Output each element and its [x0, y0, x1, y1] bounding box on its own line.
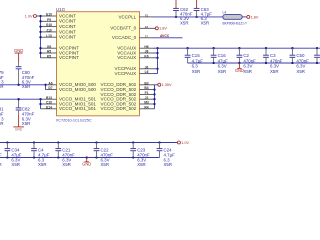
junction dots gnd rail	[212, 62, 318, 64]
svg-text:X5R: X5R	[137, 162, 146, 167]
junction dots aux rail	[186, 47, 318, 49]
capacitor C21 470nF	[57, 143, 59, 149]
capacitor C80 470nF	[18, 62, 20, 67]
svg-text:C50: C50	[296, 53, 305, 58]
svg-text:GND: GND	[14, 48, 24, 53]
wire VCCINT vertical bus	[40, 16, 42, 58]
wire B3 to 1.35V flag	[155, 84, 158, 86]
power flag 1.8V (VCCBATT)	[155, 27, 158, 30]
ground below bottom rail	[86, 156, 88, 158]
svg-text:1.0V: 1.0V	[25, 14, 33, 18]
svg-text:VCCINT: VCCINT	[59, 13, 76, 18]
capacitor C24 4.7µF	[159, 143, 161, 149]
svg-text:6.3V: 6.3V	[296, 64, 305, 69]
svg-text:D7: D7	[48, 86, 52, 90]
svg-text:G10: G10	[46, 23, 52, 27]
svg-text:VCCINT: VCCINT	[59, 19, 76, 24]
wire AVCC net	[153, 37, 183, 39]
svg-text:J8: J8	[145, 50, 149, 54]
svg-text:R4: R4	[144, 105, 148, 109]
wire DDR pins to tie	[153, 85, 155, 109]
wire E8 to flag	[153, 27, 155, 29]
svg-text:VCCBATT_0: VCCBATT_0	[110, 26, 136, 31]
capacitor C23 470nF	[132, 143, 134, 149]
wire MIO1 rail to left edge	[0, 98, 41, 100]
svg-text:5R: 5R	[0, 121, 4, 126]
junction dots VCCPLL rail	[175, 16, 177, 18]
ground symbol below bottom rail	[86, 158, 88, 162]
junction dots bottom rails	[6, 141, 160, 158]
svg-text:X5R: X5R	[22, 121, 31, 126]
svg-text:C16: C16	[218, 53, 227, 58]
svg-text:BKP900HS121-T: BKP900HS121-T	[223, 21, 248, 25]
capacitor C50 470nF	[291, 48, 293, 55]
wire L4 to 1.8V flag	[242, 16, 247, 18]
svg-text:A6: A6	[48, 81, 52, 85]
svg-text:VCCO_DDR_502: VCCO_DDR_502	[101, 106, 137, 111]
svg-text:GND: GND	[82, 162, 91, 167]
capacitor C2 470nF	[238, 48, 240, 55]
capacitor C22 470nF	[96, 143, 98, 149]
svg-text:X5R: X5R	[296, 69, 305, 74]
svg-text:J10: J10	[46, 29, 52, 33]
svg-text:M3: M3	[144, 101, 149, 105]
svg-text:VCCPAUX: VCCPAUX	[115, 71, 137, 76]
junction dots MIO1	[39, 98, 41, 105]
capacitor C82 470nF	[18, 99, 20, 108]
IC U1 left pin names	[59, 13, 96, 111]
VCCPAUX pins stubs	[140, 65, 154, 74]
power flag 1.8V (VCCPLL)	[247, 15, 250, 18]
svg-text:C15: C15	[192, 53, 201, 58]
capacitor C62 470nF	[175, 0, 177, 8]
IC U1 XC7Z010-1CLG225C body	[57, 12, 140, 116]
capacitor C4 4.7µF	[33, 143, 35, 149]
VCCO_MIO0 pins A6 D7 stubs	[46, 81, 57, 90]
svg-text:1.0V: 1.0V	[181, 141, 189, 145]
svg-text:X5R: X5R	[270, 69, 279, 74]
pin F5 VCCPLL stub	[140, 16, 154, 18]
svg-text:VCCO_MIO0_500: VCCO_MIO0_500	[59, 87, 96, 92]
svg-text:J6: J6	[145, 65, 149, 69]
ground below C82	[18, 115, 20, 127]
svg-text:L6: L6	[145, 70, 149, 74]
capacitor clipped at right edge	[316, 48, 318, 55]
junction dot C80 on MIO0 rail	[17, 84, 19, 86]
svg-text:VCCINT: VCCINT	[59, 29, 76, 34]
inductor L4 BKP900HS121-T	[223, 15, 242, 20]
svg-text:VCCPINT: VCCPINT	[59, 55, 79, 60]
svg-text:6.3V: 6.3V	[270, 64, 279, 69]
svg-text:6.3V: 6.3V	[243, 64, 252, 69]
wire flag to bus	[37, 15, 41, 17]
svg-text:X5R: X5R	[192, 69, 201, 74]
wire gnd rail under aux caps	[188, 62, 320, 64]
svg-text:X5R: X5R	[243, 69, 252, 74]
svg-text:5R: 5R	[0, 84, 4, 89]
svg-text:X5R: X5R	[218, 69, 227, 74]
svg-text:1.35V: 1.35V	[162, 83, 172, 87]
wire MIO0 rail to left edge	[0, 84, 46, 86]
svg-text:XC7Z010-1CLG225C: XC7Z010-1CLG225C	[56, 118, 92, 122]
wire VCCAUX pins to tie	[153, 48, 158, 73]
svg-text:X5R: X5R	[101, 162, 110, 167]
svg-text:VCCO_MIO1_501: VCCO_MIO1_501	[59, 106, 96, 111]
wire MIO0 tie	[45, 85, 47, 90]
pin E8 VCCBATT_0 stub	[140, 27, 154, 29]
svg-text:AVCC: AVCC	[160, 34, 170, 38]
VCCO_MIO1 pins B13 C10 E14 stubs	[41, 96, 57, 110]
svg-text:X5R: X5R	[62, 162, 71, 167]
svg-text:GND: GND	[15, 128, 23, 132]
svg-text:X5R: X5R	[201, 21, 210, 26]
junction dot MIO0	[44, 84, 46, 86]
svg-text:1.8V: 1.8V	[159, 27, 167, 31]
power flag 1.0V (VCCINT)	[33, 15, 36, 18]
VCCO_DDR pins stubs	[140, 81, 154, 109]
svg-text:X5R: X5R	[180, 21, 189, 26]
svg-text:E14: E14	[46, 105, 52, 109]
svg-text:VCCINT: VCCINT	[59, 24, 76, 29]
VCCINT/VCCPINT left pin stubs with pin numbers	[41, 13, 57, 59]
svg-text:E8: E8	[145, 25, 149, 29]
svg-text:F5: F5	[145, 14, 149, 18]
IC U1 right pin names	[101, 14, 137, 111]
pin F7 VCCADC_0 stub	[140, 37, 154, 39]
wire VCCPLL to L4	[153, 16, 223, 18]
svg-text:C10: C10	[46, 101, 52, 105]
svg-text:C3: C3	[270, 53, 276, 58]
junction dot C82 on MIO1 rail	[17, 98, 19, 100]
svg-text:X5R: X5R	[22, 84, 31, 89]
power flag 1.0V (bottom rail)	[177, 141, 180, 144]
svg-text:B4: B4	[144, 86, 148, 90]
power flag 1.35V (VCCO_DDR)	[158, 83, 161, 86]
capacitor C34 47µF	[6, 143, 8, 149]
junction dots on VCCINT bus	[39, 15, 41, 54]
capacitor C63 4.7uF	[196, 0, 198, 8]
VCCAUX pins stubs	[140, 45, 154, 59]
svg-text:6.3V: 6.3V	[218, 64, 227, 69]
svg-text:L4: L4	[223, 11, 227, 15]
svg-text:X5R: X5R	[38, 162, 47, 167]
svg-text:G8: G8	[47, 45, 52, 49]
svg-text:X5R: X5R	[11, 162, 20, 167]
svg-text:K6: K6	[144, 54, 148, 58]
capacitor C79 clipped labels	[0, 70, 4, 89]
svg-text:VCCINT: VCCINT	[59, 35, 76, 40]
svg-text:B3: B3	[144, 81, 148, 85]
svg-text:H5: H5	[47, 50, 51, 54]
svg-text:1.8V: 1.8V	[251, 15, 259, 19]
wire VCCAUX vertical tie	[157, 48, 159, 73]
wire DDR vertical tie	[154, 85, 156, 109]
svg-text:J2: J2	[145, 96, 149, 100]
capacitor C3 470nF	[265, 48, 267, 55]
svg-text:F7: F7	[145, 34, 149, 38]
svg-text:VCCADC_0: VCCADC_0	[112, 35, 137, 40]
svg-text:U1G: U1G	[56, 7, 66, 12]
wire gnd bottom rail	[0, 157, 160, 159]
svg-text:VCCPLL: VCCPLL	[118, 14, 136, 19]
svg-text:X5R: X5R	[164, 162, 173, 167]
svg-text:VCCAUX: VCCAUX	[117, 55, 136, 60]
svg-text:C2: C2	[243, 53, 249, 58]
wire 1.8V aux rail	[158, 47, 320, 49]
svg-text:B13: B13	[46, 96, 52, 100]
svg-text:6.3: 6.3	[192, 64, 199, 69]
svg-text:F9: F9	[47, 18, 51, 22]
capacitor C15 4.7µF	[187, 48, 189, 55]
wire 1.0V bottom rail	[0, 142, 177, 144]
wire MIO1 tie	[40, 99, 42, 109]
svg-text:H6: H6	[144, 45, 148, 49]
svg-text:F: F	[0, 152, 2, 157]
svg-text:R: R	[0, 162, 2, 167]
capacitor C16 47µF	[213, 48, 215, 55]
svg-text:GND: GND	[235, 68, 244, 73]
svg-text:F1: F1	[145, 91, 149, 95]
svg-text:E10: E10	[46, 13, 52, 17]
svg-text:L10: L10	[46, 34, 52, 38]
ground below aux rail	[238, 63, 240, 68]
capacitor C81 clipped labels	[0, 107, 4, 127]
svg-text:K5: K5	[47, 54, 51, 58]
